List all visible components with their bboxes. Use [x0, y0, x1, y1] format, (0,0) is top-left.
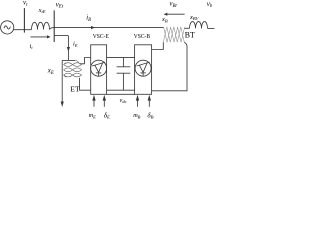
arrow deltaE input [103, 100, 105, 107]
svg-text:BT: BT [185, 30, 196, 40]
wire source to bus vt [13, 29, 31, 31]
inductor x_tE [32, 22, 50, 29]
wire BT secondary left to VSC-B [152, 42, 164, 49]
transformer BT windings [163, 27, 184, 42]
wire ET secondary top to VSC-E [80, 58, 91, 64]
arrow mB input [137, 100, 139, 107]
transformer ET top bar [62, 59, 75, 61]
arrow vBt [167, 13, 185, 15]
arrow iE head [67, 47, 70, 52]
svg-text:VSC-E: VSC-E [93, 33, 109, 40]
wire line vEt to BT [54, 27, 163, 29]
wire to infinite bus vb [208, 27, 215, 29]
capacitor Cdc [117, 57, 131, 90]
transformer ET left lead [61, 60, 63, 101]
converter VSC-B box [135, 45, 152, 95]
bus vt [23, 8, 25, 32]
arrow deltaB input [148, 100, 150, 107]
transformer ET windings [64, 60, 82, 77]
arrow it [31, 36, 48, 38]
svg-text:VSC-B: VSC-B [134, 33, 151, 40]
VSC-E circle [91, 60, 107, 76]
wire BT secondary right down [152, 42, 187, 91]
wire ET secondary bottom to VSC-E [80, 78, 91, 90]
wire BT to inductor xBV [185, 27, 190, 29]
ground arrow at ET [61, 102, 64, 108]
VSC-E diode [92, 62, 105, 76]
arrow iB head [91, 26, 95, 29]
VSC-B circle [135, 60, 151, 76]
arrow mE input [93, 100, 95, 107]
converter VSC-E box [91, 45, 107, 95]
wire shunt tap [54, 35, 68, 37]
svg-text:ET: ET [70, 86, 80, 94]
dc bottom rail [107, 89, 135, 91]
generator G1 (AC source) [1, 21, 14, 34]
wire inductor to bus vEt [50, 28, 55, 30]
wire iE down [67, 36, 69, 61]
VSC-B diode [137, 62, 150, 76]
dc top rail [107, 56, 135, 58]
inductor xBV [190, 22, 208, 29]
wire common bottom between converters [107, 93, 135, 95]
bus vEt [53, 10, 55, 42]
